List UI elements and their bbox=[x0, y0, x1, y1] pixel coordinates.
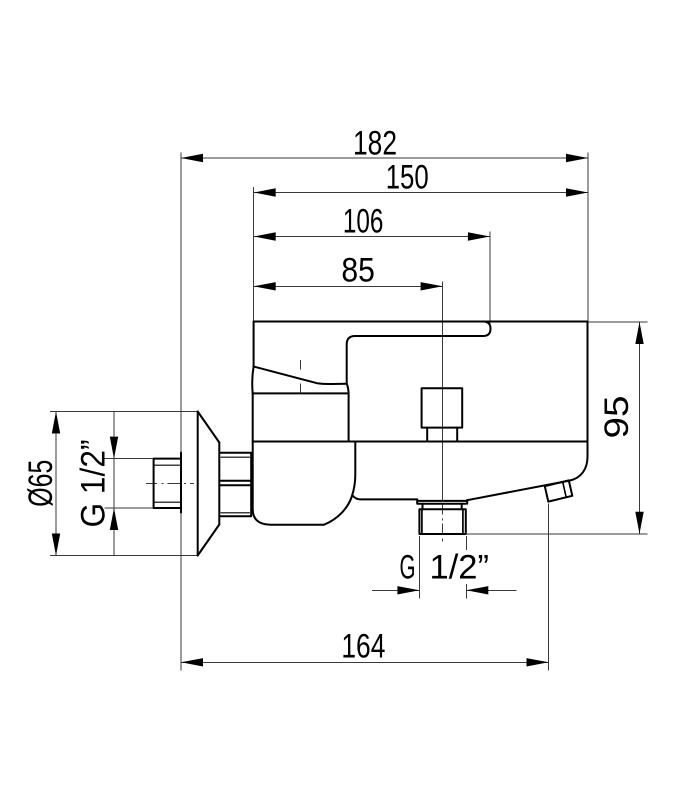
extension line 95 top bbox=[588, 321, 648, 323]
dimension line 164 bbox=[181, 661, 549, 663]
top knob bbox=[422, 388, 463, 427]
svg-text:95: 95 bbox=[598, 396, 636, 439]
centerline dash-dot outlet bbox=[442, 504, 444, 542]
extension line 95 bottom bbox=[466, 533, 648, 535]
lever rear bracket bbox=[347, 336, 355, 384]
dimension line 95 bbox=[639, 322, 641, 534]
cartridge dome right arc bbox=[347, 384, 349, 394]
outlet hex nut bbox=[419, 509, 465, 534]
extension line body right edge up bbox=[587, 153, 589, 322]
top knob neck bbox=[427, 428, 457, 442]
extension line outlet left bbox=[418, 536, 420, 598]
rosette cone right edge bbox=[218, 443, 220, 525]
dimension line G1/2 left bbox=[113, 412, 115, 556]
arrowheads bbox=[52, 154, 644, 667]
threaded nipple bbox=[154, 459, 181, 508]
lever front vertical bbox=[253, 322, 255, 367]
svg-text:G 1/2”: G 1/2” bbox=[75, 440, 113, 528]
outlet neck bbox=[423, 504, 462, 509]
rosette face bbox=[197, 412, 199, 556]
wall nut washer lines thin bbox=[221, 457, 250, 513]
dimension line G1/2 bottom right tail bbox=[466, 589, 516, 591]
dimension line 182 bbox=[181, 157, 588, 159]
extension line wall plane left bbox=[180, 153, 182, 671]
arrow 85 right bbox=[421, 282, 443, 290]
svg-text:106: 106 bbox=[343, 203, 384, 241]
body seam line bbox=[253, 441, 588, 443]
arrow G1/2 bottom right bbox=[466, 586, 488, 594]
dimension line 150 bbox=[254, 192, 588, 194]
wall nut outline bbox=[219, 453, 251, 517]
extension line outlet right bbox=[465, 536, 467, 598]
svg-text:150: 150 bbox=[386, 159, 429, 197]
body underside S-curve bbox=[324, 442, 355, 525]
arrow G1/2 left top bbox=[110, 437, 118, 459]
extension line body left edge up bbox=[253, 187, 255, 321]
body left edge and bottom left corner bbox=[253, 393, 324, 524]
arrow 182 left bbox=[181, 154, 203, 162]
dimension line dia65 bbox=[55, 412, 57, 556]
outlet hex inner edges bbox=[422, 509, 463, 534]
outlet flange bbox=[417, 499, 467, 503]
arrow G1/2 left bottom bbox=[110, 508, 118, 530]
arrow 106 left bbox=[254, 232, 276, 240]
wall nut chamfer lines bbox=[219, 481, 251, 486]
rosette cone top slant bbox=[198, 412, 220, 443]
extension line nipple top bbox=[105, 458, 154, 460]
arrow 182 right bbox=[566, 154, 588, 162]
lever underside slant bbox=[254, 367, 347, 385]
rosette cone bottom slant bbox=[198, 525, 220, 556]
centerline nipple dash-dot bbox=[146, 482, 194, 484]
extension line diverter bbox=[548, 504, 550, 671]
lever underside and rounded end bbox=[355, 322, 491, 337]
body top plate bbox=[254, 321, 588, 323]
nipple right edge on wall line bbox=[180, 453, 182, 513]
svg-text:Ø65: Ø65 bbox=[22, 460, 60, 507]
arrow G1/2 bottom left bbox=[397, 586, 419, 594]
diverter tilted knob bbox=[545, 480, 573, 501]
extension line rosette bottom bbox=[50, 555, 198, 557]
dimension texts bbox=[22, 125, 636, 666]
body right edge with corner and underside diagonal bbox=[467, 322, 587, 501]
svg-text:85: 85 bbox=[341, 252, 375, 290]
arrow 95 bottom bbox=[635, 512, 643, 534]
faucet outline (thick) bbox=[154, 322, 588, 556]
nipple thread lines thin bbox=[154, 465, 181, 502]
arrow 85 left bbox=[254, 282, 276, 290]
arrow 106 right bbox=[468, 232, 490, 240]
arrow dia65 bottom bbox=[52, 534, 60, 556]
dimension line 85 bbox=[254, 285, 443, 287]
dimension line G1/2 bottom left tail bbox=[372, 589, 419, 591]
arrow dia65 top bbox=[52, 412, 60, 434]
arrow 164 left bbox=[181, 658, 203, 666]
diverter cap line bbox=[563, 482, 567, 497]
arrow 150 left bbox=[254, 188, 276, 196]
dimension line 106 bbox=[254, 236, 490, 238]
svg-text:182: 182 bbox=[353, 125, 397, 163]
cartridge dome left arc bbox=[252, 367, 253, 394]
extension line 106 lever end bbox=[489, 232, 491, 329]
cartridge block top bbox=[253, 392, 349, 394]
underside ledge to outlet bbox=[353, 495, 418, 499]
arrow 164 right bbox=[527, 658, 549, 666]
svg-text:1/2”: 1/2” bbox=[430, 549, 490, 587]
thin extension and dimension lines bbox=[50, 153, 648, 671]
extension line nipple bottom bbox=[105, 507, 154, 509]
svg-text:G: G bbox=[400, 549, 416, 587]
svg-text:164: 164 bbox=[341, 628, 385, 666]
cartridge block right edge bbox=[348, 393, 350, 441]
arrow 150 right bbox=[566, 188, 588, 196]
white mask under bottom G 1/2 text bbox=[427, 550, 492, 584]
extension line 85 / outlet centerline bbox=[442, 282, 444, 501]
centerline cartridge dash bbox=[299, 360, 301, 394]
arrow 95 top bbox=[635, 322, 643, 344]
extension line rosette top bbox=[50, 411, 198, 413]
